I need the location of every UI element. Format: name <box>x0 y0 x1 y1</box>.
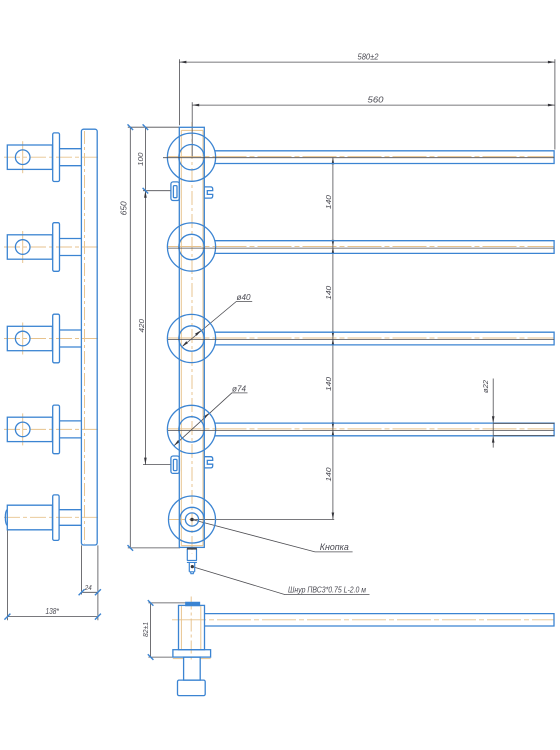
tick 138 left <box>4 614 10 620</box>
bottom view vertical centerline <box>190 597 192 660</box>
arrow ø74 lower-left <box>174 440 180 446</box>
leader ø40 <box>183 302 252 347</box>
rung 1 hole vertical centerline <box>22 141 24 173</box>
side rung 1 flange disc <box>53 133 60 182</box>
oblique tick group (blue) <box>4 124 153 660</box>
extension ø22 bottom <box>493 435 554 437</box>
side rung 3 hole <box>15 331 30 346</box>
tick 100 top <box>143 124 149 130</box>
svg-text:Шнур ПВС3*0.75 L-2.0 м: Шнур ПВС3*0.75 L-2.0 м <box>288 586 366 595</box>
bottom view cylinder <box>179 605 205 649</box>
extension 24 right / 138 right <box>97 545 99 620</box>
side rung 3 shaft <box>60 330 82 347</box>
extension 24 left <box>81 545 83 594</box>
bottom view cylinder inner wall right <box>200 606 202 650</box>
tick 24 left <box>79 589 85 595</box>
tick 138 right <box>95 614 101 620</box>
wall plate (side view) <box>81 129 97 545</box>
side rung 4 hole <box>15 422 30 437</box>
svg-text:560: 560 <box>368 95 385 104</box>
dimension 24 line <box>82 591 98 593</box>
extension line 580 left <box>178 59 180 125</box>
side rung 4 shaft <box>60 421 82 438</box>
extension line 580/560 right <box>554 59 556 149</box>
arrow 580 left <box>179 61 186 64</box>
arrow ø22 top <box>492 416 495 423</box>
plate centerline <box>84 131 86 544</box>
bar 4 <box>215 423 554 436</box>
arrow 420 bottom <box>144 458 147 465</box>
gray overlay lines on top of blue <box>163 158 555 436</box>
rung 3 hole vertical centerline <box>22 323 24 355</box>
hub 4 center extension line <box>168 429 554 431</box>
leader Кнопка <box>192 520 353 552</box>
bar 3 centerline <box>168 337 554 339</box>
bar 2 centerline <box>168 246 554 248</box>
power stem below column <box>187 549 196 561</box>
plug body <box>189 562 194 571</box>
extension 82 top <box>148 602 186 604</box>
tick 650 bottom <box>128 545 134 551</box>
power stem collar <box>187 560 197 562</box>
tick 82 bottom <box>148 654 154 660</box>
dimension 560 line <box>192 104 555 106</box>
bottom view flange <box>173 650 211 657</box>
column tube (front view) <box>179 127 204 547</box>
blue geometry group <box>5 127 554 695</box>
tick 24 right <box>95 589 101 595</box>
svg-text:650: 650 <box>120 201 129 216</box>
hub 1 outer circle <box>167 133 215 181</box>
leader ø74 <box>174 393 248 446</box>
arrows 140 chain node1 <box>332 157 335 164</box>
tick 650 top <box>128 124 134 130</box>
bar 3 <box>215 332 554 345</box>
centerline group (tan) <box>4 122 554 660</box>
svg-text:24: 24 <box>84 583 92 592</box>
side rung 5 centerline <box>4 516 101 518</box>
dimension line group (gray) <box>7 59 555 657</box>
arrow ø22 bottom <box>492 436 495 443</box>
extension line bottom-left horizontal <box>128 547 180 549</box>
bottom view cylinder inner wall left <box>180 606 182 650</box>
svg-text:580±2: 580±2 <box>358 53 380 62</box>
bottom view top cap <box>186 602 200 605</box>
hub 4 inner circle <box>179 417 204 442</box>
side rung 1 hole <box>15 150 30 165</box>
bar 1 centerline <box>168 156 554 158</box>
extension 82 bottom <box>148 656 172 658</box>
arrows 140 chain node4 <box>332 422 335 429</box>
dot hub5 center <box>190 518 194 522</box>
svg-text:140: 140 <box>324 194 333 209</box>
svg-text:82±1: 82±1 <box>141 622 150 637</box>
svg-text:ø74: ø74 <box>232 384 247 393</box>
arrows 140 chain node3 <box>332 331 335 338</box>
svg-text:420: 420 <box>137 318 146 332</box>
arrow 140 chain node5 <box>332 513 335 520</box>
side rung 4 centerline <box>4 428 101 430</box>
hub 5 inner circle <box>185 513 198 526</box>
extension 138 left <box>6 530 8 620</box>
side rung 1 shaft <box>60 149 82 166</box>
svg-text:100: 100 <box>136 152 145 166</box>
hub 2 center extension line <box>168 247 554 249</box>
side rung 2 hole <box>15 240 30 255</box>
hub 5 horizontal centerline <box>168 519 216 521</box>
side rung 3 centerline <box>4 338 101 340</box>
arrow group (black) <box>144 61 555 568</box>
hub 3 inner circle <box>179 326 204 351</box>
dimension 82±1 line <box>150 603 152 657</box>
arrow ø40 lower-left <box>182 341 188 347</box>
bottom view foot <box>178 680 206 696</box>
hub 1 center extension line <box>163 157 554 159</box>
tick 100 bottom <box>143 188 149 194</box>
svg-text:ø22: ø22 <box>481 379 490 393</box>
side rung 4 end box <box>7 417 52 441</box>
arrows 140 chain node2 <box>332 240 335 247</box>
hub 3 outer circle <box>167 314 215 362</box>
hub 2 inner circle <box>179 234 204 259</box>
arrow 560 left <box>192 104 199 107</box>
rung 4 hole vertical centerline <box>22 413 24 445</box>
bar 2 <box>215 241 554 254</box>
svg-text:140: 140 <box>324 467 333 482</box>
bottom view bar <box>205 614 555 626</box>
dot plug <box>191 565 194 568</box>
hub 3 center extension line <box>168 339 554 341</box>
column vertical centerline <box>191 122 193 554</box>
bottom view stem <box>184 657 201 680</box>
extension line bracket2 <box>143 464 171 466</box>
side rung 2 shaft <box>60 239 82 256</box>
side rung 5 cylinder <box>7 505 52 530</box>
rung 2 hole vertical centerline <box>22 231 24 263</box>
mount bracket 2 outer <box>171 456 180 473</box>
bottom view bar centerline <box>172 619 554 621</box>
side rung 1 end box <box>7 145 52 169</box>
wall clip 2 <box>204 457 212 468</box>
extension line 560 left <box>191 102 193 156</box>
side rung 2 centerline <box>4 246 101 248</box>
hub 5 outer circle <box>169 496 216 543</box>
side rung 3 flange disc <box>53 314 60 363</box>
dimension 140 chain line <box>332 157 334 519</box>
leader Шнур <box>192 567 369 595</box>
side rung 5 flange disc <box>53 495 59 541</box>
side rung 2 flange disc <box>53 223 60 272</box>
side rung 5 shaft <box>59 510 81 526</box>
tick 82 top <box>148 600 154 606</box>
extension line top-left horizontal <box>128 126 180 128</box>
hub 2 outer circle <box>167 223 215 271</box>
column inner wall line left <box>180 130 182 545</box>
arrow ø40 upper-right <box>195 330 201 336</box>
mount bracket 2 inner <box>173 459 177 470</box>
bar 4 centerline <box>168 428 554 430</box>
dimension 580±2 line <box>179 61 555 63</box>
plug tip <box>191 572 194 574</box>
dimension 650 line <box>129 127 131 548</box>
column inner top connector <box>181 129 203 131</box>
arrow ø74 upper-right <box>203 413 209 419</box>
svg-text:ø40: ø40 <box>237 293 252 302</box>
side rung 4 flange disc <box>53 405 60 454</box>
dimension 138 line <box>7 616 98 618</box>
mount bracket 1 inner <box>173 186 177 198</box>
svg-text:138*: 138* <box>45 607 59 616</box>
column inner bottom connector <box>181 545 203 547</box>
side rung 3 end box <box>7 326 52 350</box>
extension line bracket1 <box>143 190 171 192</box>
arrow 560 right <box>548 104 555 107</box>
dark cap line under column <box>187 548 197 550</box>
text group <box>45 53 490 638</box>
bar 1 <box>215 151 554 164</box>
hub 5 center extension line <box>194 519 334 521</box>
side rung 2 end box <box>7 235 52 259</box>
hub 4 outer circle <box>167 405 215 453</box>
mount bracket 1 outer <box>171 182 180 201</box>
svg-text:Кнопка: Кнопка <box>320 542 349 552</box>
dimension ø22 line <box>492 379 494 448</box>
column inner wall line right <box>202 130 204 545</box>
arrow 580 right <box>548 61 555 64</box>
side rung 1 centerline <box>4 156 101 158</box>
hub 1 inner circle <box>179 145 204 170</box>
bottom view flange seat marks <box>173 658 184 660</box>
svg-text:140: 140 <box>324 376 333 391</box>
arrow 420 top <box>144 191 147 198</box>
extension ø22 top <box>493 422 554 424</box>
svg-text:140: 140 <box>324 285 333 300</box>
dimension 100/420 line <box>144 127 146 464</box>
wall clip 1 <box>204 187 212 198</box>
hub 5 middle circle <box>180 507 204 531</box>
side rung 5 left cap bulge <box>5 510 7 526</box>
